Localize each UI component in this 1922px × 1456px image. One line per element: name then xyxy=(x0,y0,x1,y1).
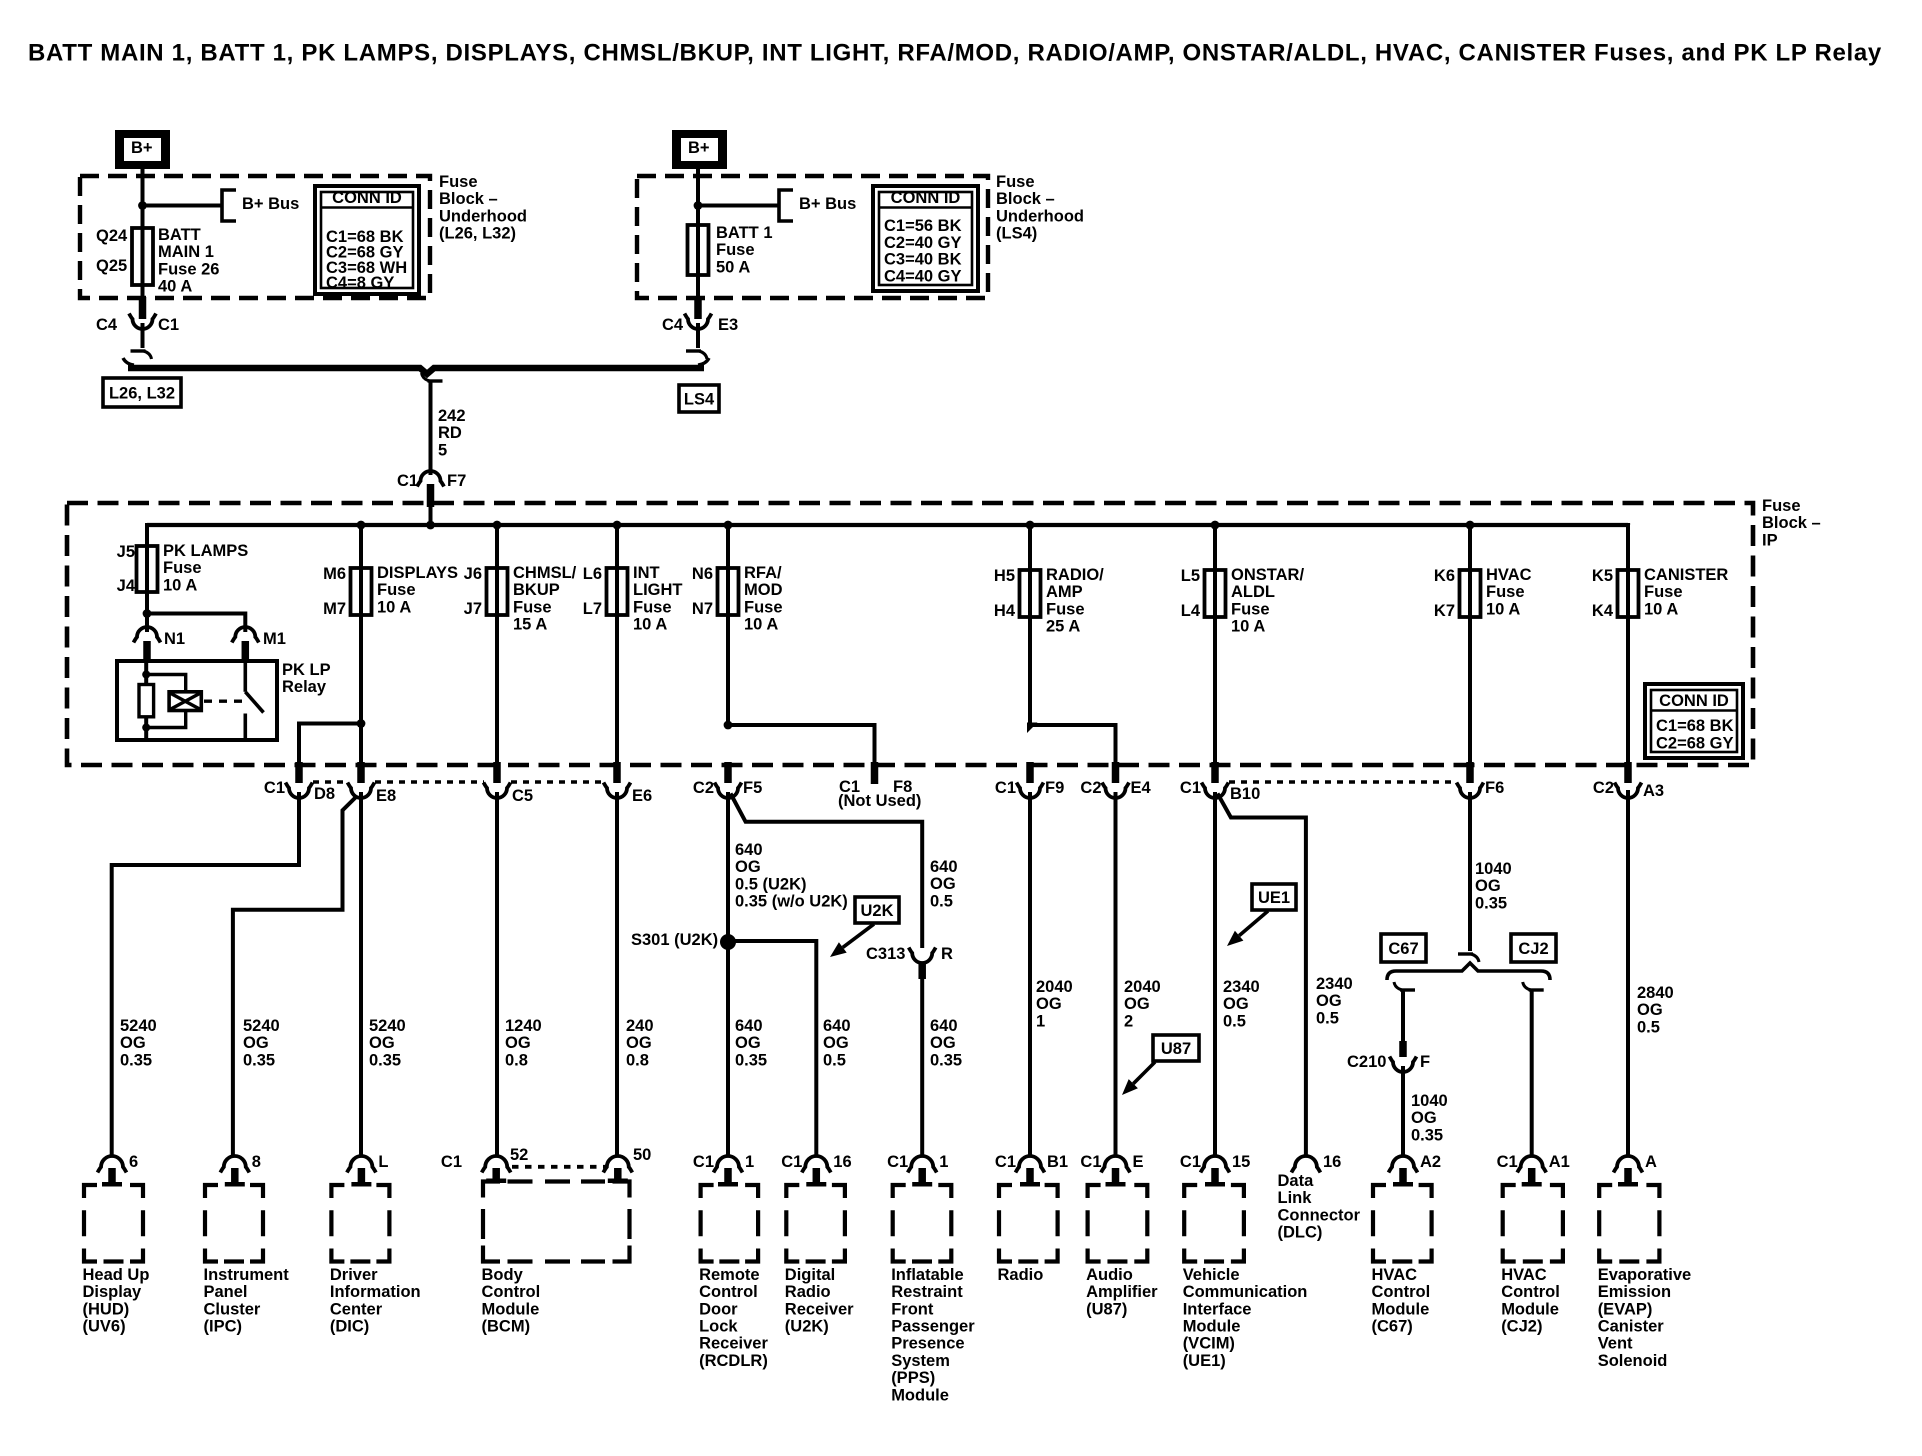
arrow U87 callout xyxy=(1122,1062,1155,1095)
svg-text:C4: C4 xyxy=(96,316,118,334)
wire relay coil branch xyxy=(146,675,186,728)
svg-text:A1: A1 xyxy=(1549,1153,1570,1171)
svg-text:16: 16 xyxy=(833,1153,851,1171)
wire C313 to PPS xyxy=(920,979,924,1157)
svg-text:Interface: Interface xyxy=(1183,1300,1252,1318)
wire below C4-C1 xyxy=(141,323,145,348)
svg-text:Center: Center xyxy=(330,1300,383,1318)
svg-text:Control: Control xyxy=(1372,1283,1431,1301)
label H4 xyxy=(994,602,1016,620)
connector Data Link Connector (DLC) xyxy=(1278,1153,1361,1242)
svg-text:Head Up: Head Up xyxy=(83,1266,150,1284)
svg-text:0.35: 0.35 xyxy=(1475,894,1507,912)
svg-text:C2: C2 xyxy=(1080,779,1101,797)
svg-text:C2=68 GY: C2=68 GY xyxy=(1656,735,1734,753)
fuse BATT MAIN 1 Fuse 26 40 A xyxy=(132,228,153,297)
wire bus to CHMSL fuse xyxy=(495,525,499,569)
label F8 xyxy=(893,778,912,796)
label C313 xyxy=(866,945,905,963)
wire break C67 branch xyxy=(1394,982,1415,990)
wire C210 to HVAC C67 xyxy=(1401,1066,1405,1157)
svg-text:LS4: LS4 xyxy=(684,390,715,408)
svg-text:Underhood: Underhood xyxy=(439,207,527,225)
svg-text:Communication: Communication xyxy=(1183,1283,1308,1301)
svg-text:Fuse: Fuse xyxy=(439,173,478,191)
connector F8 stub (not used) xyxy=(871,762,879,784)
label L4 xyxy=(1181,602,1201,620)
svg-text:640: 640 xyxy=(735,1017,763,1035)
node bus-feed junction xyxy=(426,521,435,530)
svg-text:F9: F9 xyxy=(1045,779,1064,797)
wire break above bus (left) xyxy=(131,351,152,359)
label INT fuse value xyxy=(633,564,683,634)
svg-text:C4=8 GY: C4=8 GY xyxy=(326,274,394,292)
svg-text:(UV6): (UV6) xyxy=(83,1318,126,1336)
connector N1 pin xyxy=(143,641,151,662)
svg-text:10 A: 10 A xyxy=(744,616,778,634)
wire to M1 branch xyxy=(147,614,245,633)
svg-text:2340: 2340 xyxy=(1223,978,1260,996)
wire break CJ2 branch xyxy=(1523,982,1544,990)
svg-text:C3=40 BK: C3=40 BK xyxy=(884,251,962,269)
svg-text:Fuse: Fuse xyxy=(163,559,202,577)
svg-text:OG: OG xyxy=(930,1034,956,1052)
svg-text:0.35: 0.35 xyxy=(120,1051,152,1069)
connector C4-E3 pin xyxy=(694,297,702,319)
svg-text:J6: J6 xyxy=(464,565,482,583)
wire A3 to EVAP xyxy=(1626,790,1630,1157)
svg-text:E8: E8 xyxy=(376,787,396,805)
fuse PK LAMPS 10A J5/J4 xyxy=(137,546,158,592)
label C1 (left) xyxy=(158,316,179,334)
label Q25 xyxy=(96,257,127,275)
module Body Control Module (BCM) xyxy=(441,1146,651,1336)
module Head Up Display (HUD)(UV6) xyxy=(83,1153,150,1336)
svg-text:0.35: 0.35 xyxy=(735,1051,767,1069)
label CANISTER fuse value xyxy=(1644,566,1728,618)
svg-text:52: 52 xyxy=(510,1146,528,1164)
wire B10 branch to DLC xyxy=(1218,794,1306,1158)
svg-text:Vehicle: Vehicle xyxy=(1183,1266,1240,1284)
label 640 OG 0.35 (PPS) xyxy=(930,1017,962,1069)
arrow U2K callout xyxy=(830,924,874,957)
relay switch xyxy=(245,661,263,740)
svg-text:Data: Data xyxy=(1278,1172,1315,1190)
svg-text:0.5: 0.5 xyxy=(1637,1018,1660,1036)
svg-text:OG: OG xyxy=(1124,995,1150,1013)
label S301 (U2K) xyxy=(631,931,718,949)
svg-text:CONN ID: CONN ID xyxy=(891,189,961,207)
svg-text:UE1: UE1 xyxy=(1258,889,1290,907)
svg-text:25 A: 25 A xyxy=(1046,618,1080,636)
svg-text:Control: Control xyxy=(482,1283,541,1301)
wire bus to CANISTER fuse xyxy=(1626,525,1630,571)
svg-text:E6: E6 xyxy=(632,787,652,805)
svg-text:C1: C1 xyxy=(887,1153,908,1171)
svg-text:C5: C5 xyxy=(512,787,533,805)
svg-text:1: 1 xyxy=(1036,1012,1045,1030)
node bus junction RADIO xyxy=(1026,521,1035,530)
connector C4-E3 cup xyxy=(685,314,712,330)
wire B10 to VCIM xyxy=(1213,792,1217,1157)
node relay coil bottom xyxy=(142,724,150,732)
svg-text:0.35: 0.35 xyxy=(243,1051,275,1069)
svg-text:(L26, L32): (L26, L32) xyxy=(439,225,516,243)
label Fuse Block - Underhood (LS4) xyxy=(996,173,1084,243)
svg-text:Control: Control xyxy=(1501,1283,1560,1301)
svg-text:640: 640 xyxy=(823,1017,851,1035)
svg-text:15: 15 xyxy=(1232,1153,1250,1171)
svg-text:5: 5 xyxy=(438,441,447,459)
label F7 xyxy=(447,472,466,490)
svg-text:Fuse: Fuse xyxy=(716,241,755,259)
fuse RADIO H5/H4 xyxy=(1020,570,1041,617)
svg-text:Canister: Canister xyxy=(1598,1318,1665,1336)
wire to B+ Bus tap (right) xyxy=(698,204,778,208)
svg-text:Information: Information xyxy=(330,1283,421,1301)
svg-text:16: 16 xyxy=(1323,1153,1341,1171)
connector C4-C1 pin xyxy=(139,297,147,319)
label H5 xyxy=(994,567,1015,585)
svg-text:(UE1): (UE1) xyxy=(1183,1352,1226,1370)
svg-text:Fuse 26: Fuse 26 xyxy=(158,260,219,278)
node DISPLAYS split xyxy=(357,719,366,728)
svg-text:L: L xyxy=(378,1153,388,1171)
label C1 at F7 xyxy=(397,472,418,490)
svg-text:0.35: 0.35 xyxy=(930,1051,962,1069)
svg-text:(BCM): (BCM) xyxy=(482,1318,531,1336)
node bus junction CANISTER xyxy=(1626,523,1630,525)
svg-text:Fuse: Fuse xyxy=(377,581,416,599)
svg-text:LIGHT: LIGHT xyxy=(633,581,683,599)
wire break above bus (right) xyxy=(686,351,707,359)
module Instrument Panel Cluster (IPC) xyxy=(204,1153,290,1336)
label C4 (right) xyxy=(662,316,684,334)
svg-text:Evaporative: Evaporative xyxy=(1598,1266,1692,1284)
svg-text:C1=56 BK: C1=56 BK xyxy=(884,217,962,235)
wire F6 down xyxy=(1468,792,1472,951)
svg-text:C1: C1 xyxy=(693,1153,714,1171)
svg-text:Lock: Lock xyxy=(699,1318,738,1336)
svg-text:Q25: Q25 xyxy=(96,257,127,275)
label PK LP Relay xyxy=(282,661,331,696)
svg-text:RADIO/: RADIO/ xyxy=(1046,566,1104,584)
svg-text:Fuse: Fuse xyxy=(1046,600,1085,618)
svg-text:Fuse: Fuse xyxy=(996,173,1035,191)
svg-text:10 A: 10 A xyxy=(633,616,667,634)
svg-text:Connector: Connector xyxy=(1278,1206,1361,1224)
svg-text:N7: N7 xyxy=(692,600,713,618)
svg-text:(DIC): (DIC) xyxy=(330,1318,369,1336)
fuse BATT 1 Fuse 50 A xyxy=(688,225,709,297)
svg-text:10 A: 10 A xyxy=(1644,600,1678,618)
module Remote Control Door Lock Receiver (RCDLR) xyxy=(693,1153,769,1370)
label L7 xyxy=(583,600,602,618)
svg-text:C4=40 GY: C4=40 GY xyxy=(884,267,962,285)
svg-text:CJ2: CJ2 xyxy=(1518,940,1548,958)
svg-text:Inflatable: Inflatable xyxy=(891,1266,963,1284)
svg-text:C1: C1 xyxy=(1180,1153,1201,1171)
svg-text:(RCDLR): (RCDLR) xyxy=(699,1352,768,1370)
fuse RFA N6/N7 xyxy=(718,568,739,615)
node splice S301 xyxy=(720,934,736,950)
label M1 xyxy=(263,630,286,648)
svg-text:BKUP: BKUP xyxy=(513,581,560,599)
connector N1 cap xyxy=(134,627,161,643)
svg-text:ALDL: ALDL xyxy=(1231,583,1275,601)
svg-text:IP: IP xyxy=(1762,531,1778,549)
node bus junction CHMSL xyxy=(493,521,502,530)
svg-text:CANISTER: CANISTER xyxy=(1644,566,1728,584)
svg-text:5240: 5240 xyxy=(120,1017,157,1035)
relay link dashed xyxy=(204,700,242,703)
title xyxy=(28,39,1882,66)
label C210 xyxy=(1347,1053,1386,1071)
splice arrow at RADIO branch xyxy=(1027,723,1038,734)
label K4 xyxy=(1592,602,1614,620)
wire bus to DISPLAYS fuse xyxy=(359,525,363,569)
svg-text:Fuse: Fuse xyxy=(1486,583,1525,601)
fuse ONSTAR L5/L4 xyxy=(1205,570,1226,617)
connector C1-F7 pin xyxy=(427,484,435,507)
conn id table (right underhood) xyxy=(873,186,978,291)
fuse DISPLAYS M6/M7 xyxy=(351,568,372,615)
svg-text:C1: C1 xyxy=(995,779,1016,797)
svg-text:F7: F7 xyxy=(447,472,466,490)
svg-text:Front: Front xyxy=(891,1300,934,1318)
label J4 xyxy=(117,577,136,595)
label N7 xyxy=(692,600,713,618)
module EVAP Canister Vent Solenoid xyxy=(1598,1153,1692,1370)
svg-text:0.5: 0.5 xyxy=(930,892,953,910)
svg-text:MAIN 1: MAIN 1 xyxy=(158,243,214,261)
svg-text:ONSTAR/: ONSTAR/ xyxy=(1231,566,1304,584)
svg-text:Amplifier: Amplifier xyxy=(1086,1283,1158,1301)
svg-text:1: 1 xyxy=(939,1153,948,1171)
svg-text:640: 640 xyxy=(735,841,763,859)
svg-text:640: 640 xyxy=(930,858,958,876)
fuse CHMSL J6/J7 xyxy=(487,568,508,615)
bus wire L26/L32 to LS4 xyxy=(123,358,709,374)
svg-text:0.5: 0.5 xyxy=(1316,1009,1339,1027)
label R at C313 xyxy=(941,945,953,963)
svg-text:F5: F5 xyxy=(743,779,762,797)
connector C1-F9 xyxy=(995,762,1064,798)
svg-text:B+: B+ xyxy=(688,139,710,157)
dotted connector line D8-E8 xyxy=(313,780,348,783)
bus wire inside IP fuse block xyxy=(147,523,1628,527)
label 1240 OG 0.8 xyxy=(505,1017,542,1069)
svg-text:M6: M6 xyxy=(323,565,346,583)
wire E8 drop xyxy=(359,724,363,767)
module Radio xyxy=(995,1153,1068,1284)
wire 242 RD 5 xyxy=(429,381,433,475)
label B+ Bus (left) xyxy=(242,195,299,213)
svg-text:2340: 2340 xyxy=(1316,975,1353,993)
svg-text:5240: 5240 xyxy=(369,1017,406,1035)
svg-text:J4: J4 xyxy=(117,577,136,595)
wire CANISTER fuse to A3 xyxy=(1626,525,1630,766)
svg-text:HVAC: HVAC xyxy=(1372,1266,1418,1284)
dotted connector line E8-C5 xyxy=(375,780,484,783)
svg-text:A3: A3 xyxy=(1643,782,1664,800)
relay coil box with X xyxy=(169,692,201,711)
svg-text:RFA/: RFA/ xyxy=(744,564,782,582)
svg-text:HVAC: HVAC xyxy=(1501,1266,1547,1284)
label M7 xyxy=(323,600,346,618)
svg-text:OG: OG xyxy=(1223,995,1249,1013)
wire below C4-E3 xyxy=(696,323,700,348)
wire branch to E4 xyxy=(1030,725,1116,766)
svg-text:Module: Module xyxy=(482,1300,540,1318)
wire bus to RFA fuse xyxy=(726,525,730,569)
svg-text:L5: L5 xyxy=(1181,567,1200,585)
svg-text:Link: Link xyxy=(1278,1189,1313,1207)
svg-text:Module: Module xyxy=(1501,1300,1559,1318)
label (Not Used) xyxy=(838,792,921,810)
svg-text:OG: OG xyxy=(823,1034,849,1052)
svg-text:C1: C1 xyxy=(1080,1153,1101,1171)
svg-text:Radio: Radio xyxy=(785,1283,831,1301)
label C1 at F8 xyxy=(839,778,860,796)
svg-text:N6: N6 xyxy=(692,565,713,583)
fuse block underhood box (left) xyxy=(80,176,430,298)
label Q24 xyxy=(96,227,128,245)
svg-text:(U87): (U87) xyxy=(1086,1300,1127,1318)
svg-text:C2=40 GY: C2=40 GY xyxy=(884,234,962,252)
svg-text:Block –: Block – xyxy=(439,190,498,208)
svg-text:Vent: Vent xyxy=(1598,1335,1633,1353)
callout box U87 xyxy=(1153,1035,1199,1061)
label CHMSL fuse value xyxy=(513,564,577,634)
svg-text:C2: C2 xyxy=(693,779,714,797)
wire PK LAMPS fuse to relay node xyxy=(145,592,149,632)
wire HVAC fuse to F6 xyxy=(1468,617,1472,766)
fuse HVAC K6/K7 xyxy=(1460,570,1481,617)
svg-text:BATT: BATT xyxy=(158,226,201,244)
label K5 xyxy=(1592,567,1613,585)
svg-text:C1: C1 xyxy=(397,472,418,490)
svg-text:C313: C313 xyxy=(866,945,905,963)
svg-text:640: 640 xyxy=(930,1017,958,1035)
svg-text:D8: D8 xyxy=(314,785,335,803)
svg-text:242: 242 xyxy=(438,407,466,425)
svg-text:Restraint: Restraint xyxy=(891,1283,963,1301)
svg-text:0.35: 0.35 xyxy=(1411,1126,1443,1144)
svg-text:M7: M7 xyxy=(323,600,346,618)
svg-text:B+ Bus: B+ Bus xyxy=(242,195,299,213)
connector C4-C1 cup xyxy=(129,314,156,330)
conn id table (left underhood) xyxy=(315,186,419,294)
svg-text:Fuse: Fuse xyxy=(744,598,783,616)
svg-text:(HUD): (HUD) xyxy=(83,1300,130,1318)
wire bus to HVAC fuse xyxy=(1468,525,1472,571)
svg-text:OG: OG xyxy=(1475,877,1501,895)
wire bus to RADIO fuse xyxy=(1028,525,1032,571)
wire E4 to Audio Amplifier xyxy=(1114,792,1118,1157)
svg-text:System: System xyxy=(891,1352,950,1370)
wire branch to D8 xyxy=(299,724,361,767)
svg-text:L7: L7 xyxy=(583,600,602,618)
svg-text:0.8: 0.8 xyxy=(626,1051,649,1069)
svg-text:U2K: U2K xyxy=(860,902,893,920)
dotted connector line B10-F6 xyxy=(1229,780,1457,783)
wire CJ2 to HVAC xyxy=(1530,990,1534,1157)
label 640 OG 0.35 (RCDLR) xyxy=(735,1017,767,1069)
label ONSTAR fuse value xyxy=(1231,566,1304,636)
connector C1-F7 cap xyxy=(417,471,444,486)
svg-text:Instrument: Instrument xyxy=(204,1266,290,1284)
wire D8 to HUD xyxy=(112,792,299,1157)
wire F9 to Radio xyxy=(1028,792,1032,1157)
svg-text:CONN ID: CONN ID xyxy=(332,189,402,207)
wire B+ to fuse block (left) xyxy=(141,169,145,228)
svg-text:0.5 (U2K): 0.5 (U2K) xyxy=(735,875,807,893)
wire bus to INT fuse xyxy=(615,525,619,569)
svg-text:E: E xyxy=(1133,1153,1144,1171)
svg-text:B+: B+ xyxy=(131,139,153,157)
label J7 xyxy=(464,600,482,618)
svg-text:A2: A2 xyxy=(1420,1153,1441,1171)
wire to B+ Bus tap (left) xyxy=(143,204,222,208)
wire to C210 xyxy=(1401,990,1405,1041)
svg-text:F6: F6 xyxy=(1485,779,1504,797)
svg-text:10 A: 10 A xyxy=(377,598,411,616)
wire feed drop to bus xyxy=(429,507,433,525)
label B+ Bus (right) xyxy=(799,195,856,213)
arrow UE1 callout xyxy=(1227,911,1268,946)
svg-text:C67: C67 xyxy=(1388,940,1418,958)
connector C313 cup xyxy=(909,948,936,964)
svg-text:Driver: Driver xyxy=(330,1266,378,1284)
svg-text:2040: 2040 xyxy=(1036,978,1073,996)
connector E6 xyxy=(604,762,653,805)
label Fuse Block - Underhood (L26, L32) xyxy=(439,173,527,243)
callout box C67 xyxy=(1381,934,1426,962)
wire break below bus notch xyxy=(422,373,443,381)
fuse block underhood box (right) xyxy=(637,176,988,298)
power symbol B+ (left) xyxy=(115,130,170,169)
svg-text:(VCIM): (VCIM) xyxy=(1183,1335,1235,1353)
wire DISPLAYS fuse to split xyxy=(359,615,363,725)
svg-text:K5: K5 xyxy=(1592,567,1613,585)
svg-text:0.8: 0.8 xyxy=(505,1051,528,1069)
svg-text:1240: 1240 xyxy=(505,1017,542,1035)
svg-text:L26, L32: L26, L32 xyxy=(109,384,175,402)
svg-text:50: 50 xyxy=(633,1146,651,1164)
node B+ Bus junction (right) xyxy=(694,201,703,210)
svg-text:0.35 (w/o U2K): 0.35 (w/o U2K) xyxy=(735,893,848,911)
wire S301 to U2K receiver xyxy=(728,941,816,1157)
svg-text:C1: C1 xyxy=(781,1153,802,1171)
B+ Bus bracket (left) xyxy=(222,190,236,221)
svg-text:50 A: 50 A xyxy=(716,258,750,276)
svg-text:K4: K4 xyxy=(1592,602,1614,620)
svg-text:PK LAMPS: PK LAMPS xyxy=(163,542,248,560)
svg-text:1040: 1040 xyxy=(1475,860,1512,878)
svg-text:PK LP: PK LP xyxy=(282,661,331,679)
svg-text:H5: H5 xyxy=(994,567,1015,585)
svg-text:240: 240 xyxy=(626,1017,654,1035)
wire relay coil left leg xyxy=(144,661,148,685)
svg-text:E3: E3 xyxy=(718,316,738,334)
label PK LAMPS Fuse 10 A xyxy=(163,542,248,594)
svg-text:AMP: AMP xyxy=(1046,583,1083,601)
label RFA fuse value xyxy=(744,564,783,634)
module Vehicle Communication Interface Module (VCIM)(UE1) xyxy=(1180,1153,1307,1370)
svg-text:Fuse: Fuse xyxy=(1762,497,1801,515)
wire break at F6 end xyxy=(1458,954,1479,962)
